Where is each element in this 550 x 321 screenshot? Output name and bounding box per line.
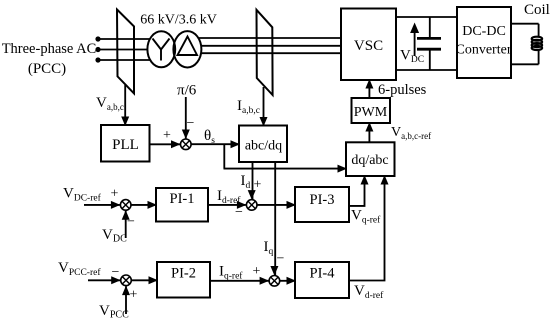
- svg-text:Three-phase AC: Three-phase AC: [2, 41, 97, 57]
- svg-text:−: −: [187, 116, 195, 131]
- svg-text:−: −: [127, 215, 135, 230]
- svg-text:Vd-ref: Vd-ref: [354, 283, 384, 301]
- svg-text:dq/abc: dq/abc: [351, 153, 388, 168]
- svg-text:Va,b,c: Va,b,c: [96, 95, 124, 112]
- svg-text:Converter: Converter: [456, 43, 512, 58]
- svg-text:π/6: π/6: [177, 83, 197, 99]
- svg-text:VDC: VDC: [102, 227, 127, 245]
- svg-text:VPCC-ref: VPCC-ref: [58, 260, 101, 278]
- svg-text:Vq-ref: Vq-ref: [351, 208, 381, 226]
- svg-text:PI-2: PI-2: [171, 266, 196, 282]
- svg-text:+: +: [130, 288, 138, 303]
- svg-text:Id-ref: Id-ref: [217, 188, 241, 206]
- svg-text:66 kV/3.6 kV: 66 kV/3.6 kV: [140, 13, 217, 28]
- svg-text:θs: θs: [204, 128, 215, 146]
- svg-text:Iq: Iq: [264, 239, 274, 257]
- svg-text:Iq-ref: Iq-ref: [219, 264, 243, 282]
- svg-text:PI-3: PI-3: [310, 192, 335, 208]
- svg-text:abc/dq: abc/dq: [245, 139, 282, 154]
- svg-text:VSC: VSC: [354, 38, 383, 54]
- svg-text:+: +: [163, 128, 171, 143]
- svg-text:−: −: [112, 265, 120, 280]
- svg-text:Id: Id: [241, 173, 251, 191]
- svg-text:−: −: [277, 252, 285, 267]
- svg-text:PLL: PLL: [112, 137, 139, 153]
- svg-text:Ia,b,c: Ia,b,c: [237, 98, 260, 116]
- svg-text:VPCC: VPCC: [99, 303, 129, 321]
- svg-text:PWM: PWM: [354, 105, 388, 120]
- svg-text:+: +: [111, 187, 119, 202]
- svg-text:−: −: [235, 205, 243, 220]
- svg-text:Coil: Coil: [524, 2, 550, 18]
- svg-text:PI-1: PI-1: [170, 191, 195, 207]
- svg-text:DC-DC: DC-DC: [462, 24, 506, 39]
- svg-text:6-pulses: 6-pulses: [378, 82, 427, 98]
- svg-text:Va,b,c-ref: Va,b,c-ref: [391, 125, 431, 141]
- svg-text:+: +: [254, 178, 262, 193]
- svg-text:PI-4: PI-4: [310, 266, 336, 282]
- svg-text:(PCC): (PCC): [28, 61, 66, 77]
- svg-text:+: +: [253, 264, 261, 279]
- svg-text:VDC-ref: VDC-ref: [63, 186, 102, 204]
